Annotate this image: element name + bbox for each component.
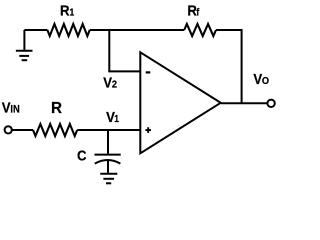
wire: node V1 down to capacitor C (107, 130, 109, 154)
resistor R (33, 124, 77, 136)
label VIN (2, 99, 20, 116)
wire: R to non-inverting input (node V1) (77, 129, 140, 131)
wire: Rf to output node (216, 30, 242, 103)
label V2 (inverting input node) (103, 74, 117, 91)
terminal VIN (input port circle) (5, 126, 12, 133)
svg-text:R: R (51, 100, 62, 117)
svg-text:IN: IN (10, 104, 19, 116)
svg-text:O: O (262, 76, 269, 88)
label V1 (non-inverting input node) (106, 108, 119, 125)
capacitor C (95, 155, 121, 164)
svg-text:C: C (77, 147, 87, 164)
label Rf (187, 2, 200, 19)
label VO (253, 70, 269, 87)
svg-text:2: 2 (112, 79, 118, 91)
label R1 (60, 2, 74, 19)
wire: op-amp output to terminal VO (221, 102, 267, 104)
resistor R1 (47, 24, 89, 36)
resistor Rf (184, 24, 216, 36)
svg-text:R: R (60, 2, 70, 19)
ground GND2 (below C) (100, 161, 117, 184)
wire: ground to R1 (24, 29, 47, 31)
op-amp U1 (140, 52, 220, 153)
terminal VO (output port circle) (267, 100, 274, 107)
svg-text:1: 1 (70, 7, 75, 18)
svg-text:f: f (196, 7, 200, 19)
wire: R1 to Rf (top net) (90, 29, 185, 31)
svg-text:1: 1 (114, 113, 119, 124)
wire: input terminal to R (12, 129, 33, 131)
ground GND1 (left end of R1) (16, 30, 33, 60)
wire: node V2 stub to inverting input (109, 30, 140, 71)
